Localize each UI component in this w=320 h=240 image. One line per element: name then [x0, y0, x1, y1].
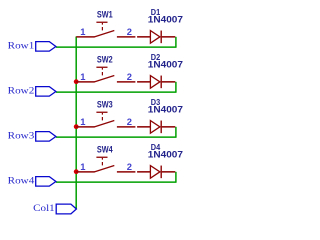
diode D2 triangle: [150, 76, 160, 89]
switch SW4 actuator bar: [96, 156, 107, 158]
switch SW3 actuator bar: [96, 111, 107, 113]
diode D4 cathode pin: [162, 171, 176, 173]
svg-text:SW4: SW4: [97, 144, 113, 154]
svg-text:1N4007: 1N4007: [148, 104, 183, 114]
diode D1 cathode bar: [160, 31, 162, 44]
wire D3 cathode drop: [175, 127, 177, 138]
port Row2 connector: [36, 87, 56, 97]
diode D1 anode pin: [137, 36, 150, 38]
diode D3 anode pin: [137, 126, 150, 128]
wire Row2 horizontal: [56, 91, 177, 93]
switch SW4 pin 2: [117, 171, 135, 173]
svg-text:1: 1: [80, 116, 85, 127]
junction dot row4: [74, 169, 79, 174]
svg-text:1N4007: 1N4007: [148, 14, 183, 24]
wire Row4 horizontal: [56, 181, 177, 183]
svg-text:1N4007: 1N4007: [148, 149, 183, 159]
diode D2 cathode pin: [162, 81, 176, 83]
svg-text:2: 2: [127, 26, 132, 37]
diode D3 cathode bar: [160, 121, 162, 134]
port Row3 connector: [36, 132, 56, 142]
switch SW1 actuator stem (dashed): [101, 23, 103, 31]
switch SW3 lever: [94, 121, 114, 127]
diode D1 triangle: [150, 31, 160, 44]
svg-text:SW1: SW1: [97, 9, 113, 19]
port Row1 connector: [36, 42, 56, 52]
diode D2 anode pin: [137, 81, 150, 83]
svg-text:SW3: SW3: [97, 99, 113, 109]
svg-text:Row4: Row4: [8, 176, 35, 186]
diode D4 anode pin: [137, 171, 150, 173]
diode D4 cathode bar: [160, 166, 162, 179]
port Row4 connector: [36, 177, 56, 187]
svg-text:Row3: Row3: [8, 131, 35, 141]
wire D2 cathode drop: [175, 82, 177, 93]
switch SW3 pin 1: [76, 126, 94, 128]
diode D4 triangle: [150, 166, 160, 179]
junction dot row2: [74, 79, 79, 84]
svg-text:1N4007: 1N4007: [148, 59, 183, 69]
wire D1 cathode drop: [175, 37, 177, 48]
switch SW2 pin 1: [76, 81, 94, 83]
svg-text:SW2: SW2: [97, 54, 113, 64]
svg-text:1: 1: [80, 26, 85, 37]
switch SW3 actuator stem (dashed): [101, 113, 103, 121]
switch SW3 pin 2: [117, 126, 135, 128]
switch SW4 actuator stem (dashed): [101, 158, 103, 166]
svg-text:Row2: Row2: [8, 86, 35, 96]
svg-text:Col1: Col1: [33, 204, 55, 214]
svg-text:2: 2: [127, 161, 132, 172]
wire Row3 horizontal: [56, 136, 177, 138]
svg-text:Row1: Row1: [8, 41, 35, 51]
switch SW1 pin 1: [76, 36, 94, 38]
junction dot row3: [74, 124, 79, 129]
switch SW4 lever: [94, 166, 114, 172]
wire column bus Col1 vertical: [75, 37, 77, 210]
switch SW2 actuator bar: [96, 66, 107, 68]
wire D4 cathode drop: [175, 172, 177, 183]
diode D3 triangle: [150, 121, 160, 134]
svg-text:2: 2: [127, 71, 132, 82]
switch SW1 lever: [94, 31, 114, 37]
diode D1 cathode pin: [162, 36, 176, 38]
diode D2 cathode bar: [160, 76, 162, 89]
diode D3 cathode pin: [162, 126, 176, 128]
svg-text:2: 2: [127, 116, 132, 127]
switch SW2 pin 2: [117, 81, 135, 83]
wire Row1 horizontal: [56, 46, 177, 48]
switch SW2 actuator stem (dashed): [101, 68, 103, 76]
svg-text:1: 1: [80, 161, 85, 172]
switch SW4 pin 1: [76, 171, 94, 173]
switch SW1 actuator bar: [96, 21, 107, 23]
svg-text:1: 1: [80, 71, 85, 82]
switch SW2 lever: [94, 76, 114, 82]
port Col1 connector: [56, 204, 76, 214]
switch SW1 pin 2: [117, 36, 135, 38]
